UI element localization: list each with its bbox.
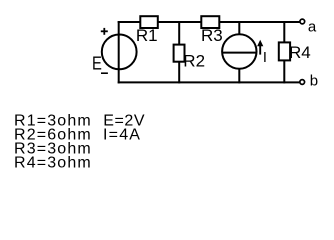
svg-text:R3: R3	[201, 26, 223, 45]
svg-text:R4: R4	[289, 43, 311, 62]
svg-text:R4=3ohm: R4=3ohm	[14, 155, 92, 172]
svg-text:a: a	[308, 19, 317, 36]
svg-text:b: b	[310, 73, 318, 90]
svg-text:R1: R1	[136, 26, 158, 45]
svg-text:I: I	[263, 50, 267, 66]
svg-text:I=4A: I=4A	[103, 127, 141, 144]
svg-text:E: E	[92, 53, 102, 74]
svg-text:R2: R2	[183, 52, 205, 71]
